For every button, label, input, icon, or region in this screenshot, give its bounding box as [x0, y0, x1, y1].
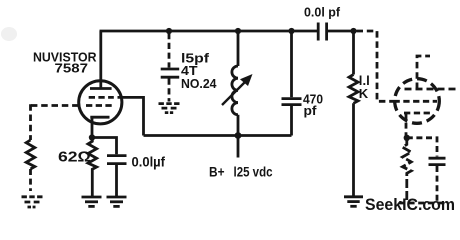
ground (dashed) left branch — [22, 197, 44, 207]
resistor R2 62 ohm — [88, 138, 97, 197]
U1 plate bar — [90, 87, 112, 90]
svg-text:7587: 7587 — [55, 60, 89, 75]
svg-text:NO.24: NO.24 — [181, 76, 217, 91]
wire: C2 lower lead — [115, 165, 118, 196]
wire: 470pf top lead — [290, 31, 293, 97]
wire: V2 cathode lead down (dashed) — [405, 113, 408, 138]
wire: grid2 exit right, down to screen rail — [118, 97, 144, 135]
capacitor C1 15pf plates — [161, 68, 180, 71]
wire: R3 lower lead to ground — [352, 103, 355, 196]
wire: top rail right segment after C4 — [327, 30, 353, 33]
wire: top rail left segment — [100, 30, 318, 33]
ground under R2 — [82, 197, 102, 206]
svg-text:pf: pf — [304, 103, 318, 118]
wire: B+ feed stub — [237, 136, 240, 158]
V2 cathode bar (dashed) — [404, 112, 431, 115]
U1 cathode bar — [90, 116, 109, 119]
svg-text:0.0lµf: 0.0lµf — [132, 155, 166, 170]
wire: dashed lead to ground — [29, 169, 32, 191]
svg-text:B+: B+ — [209, 165, 225, 180]
svg-text:0.0l pf: 0.0l pf — [304, 5, 341, 20]
svg-text:SeekIC.com: SeekIC.com — [365, 196, 455, 214]
node: junction dot top rail / L1 — [235, 28, 241, 34]
svg-text:62Ω: 62Ω — [58, 149, 91, 165]
arrow of variable inductor — [222, 81, 246, 105]
node: junction dot B+ rail — [235, 132, 242, 139]
resistor R1 (left dashed branch) — [26, 140, 35, 169]
wire: R3 upper lead — [352, 31, 355, 75]
tube V2 next stage (dashed envelope) — [395, 79, 440, 124]
wire: dashed 15pf lower lead — [168, 79, 171, 102]
svg-text:l25 vdc: l25 vdc — [234, 165, 273, 180]
node: junction dot top rail / 15pf — [166, 28, 172, 34]
ground under C2 — [107, 197, 127, 206]
V2 plate bar and right exit (dashed) — [405, 88, 460, 91]
svg-text:K: K — [359, 86, 369, 101]
wire: dashed left branch vertical — [29, 104, 32, 140]
wire: cathode link to C2 — [92, 138, 117, 155]
node: junction dot top rail / 470pf — [288, 28, 294, 34]
resistor R4 (dashed cathode resistor) — [403, 138, 412, 203]
wire: dashed coupling from top rail to next stage grid — [357, 31, 394, 101]
U1 grid 1 (dashed) — [86, 104, 112, 107]
U1 grid 2 (dashed) — [89, 96, 114, 99]
faint scan smudge top-left — [1, 27, 17, 41]
wire: dashed bottom link — [399, 202, 445, 205]
inductor L1 (variable, 4 turns) — [232, 66, 238, 115]
wire: U1 cathode lead down — [91, 117, 94, 137]
wire: L1 top lead — [237, 31, 240, 66]
capacitor C4 0.01pf series plates — [317, 23, 320, 41]
V2 plate lead up and out (dashed) — [417, 56, 430, 89]
resistor R3 1.1K — [349, 75, 358, 104]
ground (dashed) under C1 — [159, 104, 180, 113]
wire: 470pf bottom lead up from rail — [290, 104, 293, 136]
ground under R3 — [344, 197, 363, 207]
V2 grid row (dashed) — [394, 100, 438, 103]
node: junction dot top rail / R3 — [350, 28, 356, 34]
wire: screen/B+ rail — [144, 134, 292, 137]
capacitor C3 470pf plates — [282, 97, 302, 100]
capacitor C5 (dashed branch) plates — [429, 157, 446, 160]
node: junction dot cathode network — [404, 135, 410, 141]
wire: dashed link to bypass cap — [407, 138, 437, 157]
tube U1 NUVISTOR 7587 envelope — [79, 81, 122, 124]
wire: C5 lower dashed lead — [436, 166, 439, 203]
wire: L1 bottom lead — [237, 115, 240, 136]
wire: dashed 15pf upper lead — [168, 33, 171, 68]
wire: plate lead of U1 up to top rail — [99, 31, 102, 89]
node: cathode junction dot — [89, 134, 95, 140]
wire: dashed grid lead to left branch — [31, 104, 79, 107]
capacitor C2 0.01uf plates — [107, 154, 127, 157]
